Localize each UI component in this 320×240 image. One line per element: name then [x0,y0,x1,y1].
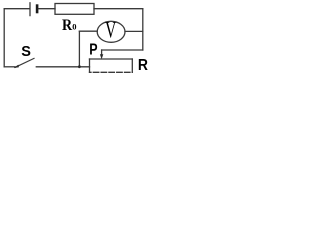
wire slider horizontal [102,49,143,51]
wire voltmeter junction vertical [78,31,80,66]
wire left vertical [3,9,5,67]
battery cell short plate [36,6,39,12]
voltmeter left wire [79,30,97,32]
resistor R0 box [55,4,94,15]
junction node dot [78,65,81,68]
switch S blade [15,58,34,67]
wire battery to R0 box [39,8,56,10]
svg-text:S: S [21,44,31,60]
switch pivot arrowhead [14,65,19,68]
wire bottom from switch to rheostat [36,66,89,68]
wire R0 to top right corner [94,8,143,10]
svg-text:R: R [138,57,148,74]
svg-text:P: P [89,41,98,59]
wire right vertical [142,9,144,50]
rheostat slider arrow shaft [101,50,103,55]
svg-text:V: V [105,18,116,44]
voltmeter right wire [125,30,143,32]
switch left stub [4,66,15,68]
rheostat R box right edge [131,59,133,72]
rheostat R box left edge [89,59,91,72]
wire top left to battery [4,8,29,10]
battery cell long plate [29,3,31,16]
rheostat R box top edge [90,58,133,60]
rheostat R box bottom edge dashed [90,71,133,73]
svg-text:0: 0 [72,22,76,32]
rheostat slider arrowhead [100,54,103,59]
voltmeter U1 circle [97,21,125,42]
